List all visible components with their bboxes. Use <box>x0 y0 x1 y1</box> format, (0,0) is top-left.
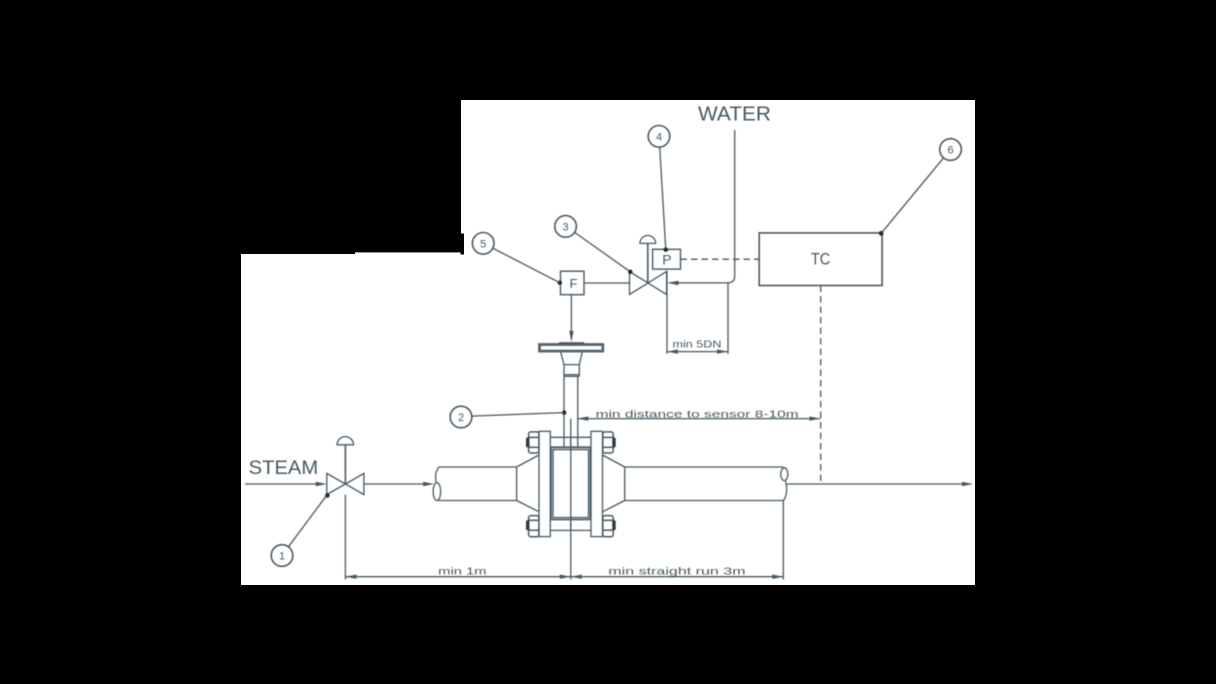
min 5DN right extension line <box>727 283 729 354</box>
right pipe segment <box>625 467 787 501</box>
svg-text:min distance to sensor 8-10m: min distance to sensor 8-10m <box>596 408 799 420</box>
min 5DN left arrow <box>667 349 678 353</box>
center line through body <box>570 437 572 530</box>
svg-text:2: 2 <box>458 412 464 424</box>
node dot on valve from tag 3 <box>628 270 632 274</box>
min 5DN left extension line (valve right edge extended) <box>666 271 668 354</box>
min 1m right arrow <box>560 575 571 579</box>
steam arrowhead <box>316 482 327 486</box>
sensor cap plate <box>559 342 584 344</box>
steam valve stem <box>344 445 346 484</box>
right reducer <box>603 455 625 512</box>
desuperheater body inner <box>553 450 589 518</box>
node dot on TC corner <box>879 231 884 236</box>
tag circle 3 <box>555 216 577 238</box>
desuperheater body outer <box>551 448 590 520</box>
tag circle 5 <box>472 233 494 255</box>
leader line from tag 2 <box>472 413 565 417</box>
left reducer <box>517 455 539 512</box>
arrowhead into pipe <box>423 482 434 486</box>
wire valve to pipe <box>364 483 425 485</box>
leader line from tag 3 <box>574 232 630 272</box>
svg-text:4: 4 <box>656 131 662 143</box>
svg-text:TC: TC <box>811 250 831 269</box>
outlet line <box>786 483 963 485</box>
min distance dimension line <box>577 418 820 420</box>
white step on left panel top edge <box>355 252 461 255</box>
sensor pipe walls <box>564 376 578 453</box>
node dot on P box <box>664 247 669 252</box>
P box <box>653 249 681 269</box>
control valve stem <box>647 243 649 283</box>
bottom band between flanges <box>550 520 591 531</box>
min 5DN dimension line <box>667 351 728 353</box>
control valve actuator dome <box>640 236 656 244</box>
leader line from tag 6 <box>881 158 943 234</box>
TC controller box <box>759 233 882 286</box>
bolt bottom-left <box>526 516 539 537</box>
water pipe line <box>669 130 735 283</box>
white panel right <box>461 100 975 585</box>
steam inlet line <box>245 483 317 485</box>
svg-text:F: F <box>570 276 578 291</box>
straight run left arrow <box>571 575 582 579</box>
outlet arrowhead <box>962 482 973 486</box>
min 5DN right arrow <box>717 349 728 353</box>
right extension line from pipe end <box>782 501 784 580</box>
bottom dimension line min 1m <box>346 576 571 578</box>
leader line from tag 1 <box>288 495 326 547</box>
black notch <box>461 234 465 255</box>
min 1m left arrow <box>346 575 357 579</box>
right flange <box>591 431 603 536</box>
F box <box>561 271 585 295</box>
sensor neck trapezoid <box>561 352 583 365</box>
steam valve actuator dome <box>337 437 353 445</box>
top band between flanges <box>550 437 591 447</box>
dashed signal TC to sensor line <box>820 286 822 485</box>
center extension line down through assembly <box>570 419 572 580</box>
F box down line to sensor <box>570 295 572 339</box>
straight run right arrow <box>772 575 783 579</box>
bolt top-right <box>603 432 616 453</box>
tag circle 6 <box>940 139 962 161</box>
bolt bottom-right <box>603 516 616 537</box>
svg-text:6: 6 <box>947 145 953 157</box>
tag circle 4 <box>648 126 670 148</box>
dashed signal P to TC <box>681 258 760 260</box>
node dot on steam valve <box>325 493 330 498</box>
leader line from tag 5 <box>493 248 560 283</box>
svg-text:WATER: WATER <box>698 103 771 126</box>
sensor flange <box>539 344 604 352</box>
water inlet arrowhead <box>668 281 679 286</box>
node dot on sensor pipe <box>562 410 566 414</box>
min distance right arrow <box>809 416 820 420</box>
control valve CV bowtie <box>630 271 667 294</box>
tag circle 2 <box>450 406 472 428</box>
min distance left arrow <box>577 416 588 420</box>
steam valve extension line down <box>344 495 346 580</box>
white panel left <box>241 254 462 585</box>
svg-text:P: P <box>662 252 671 268</box>
tag circle 1 <box>271 545 293 567</box>
svg-text:1: 1 <box>279 551 285 563</box>
left pipe segment <box>436 467 517 501</box>
svg-text:5: 5 <box>480 238 486 250</box>
svg-text:min straight run 3m: min straight run 3m <box>608 565 746 577</box>
svg-text:STEAM: STEAM <box>249 458 319 479</box>
bolt top-left <box>526 432 539 453</box>
sensor coupling <box>564 365 579 377</box>
steam isolation valve bowtie <box>327 473 364 494</box>
bottom dimension line min straight run 3m <box>571 576 784 578</box>
left flange <box>539 431 550 536</box>
svg-text:3: 3 <box>563 221 569 233</box>
leader line from tag 4 <box>660 147 666 250</box>
node dot on F box <box>558 281 562 285</box>
svg-text:min 1m: min 1m <box>438 565 487 577</box>
wire F box to control valve <box>584 282 630 284</box>
arrowhead into sensor <box>569 331 573 342</box>
svg-text:min 5DN: min 5DN <box>673 339 722 351</box>
